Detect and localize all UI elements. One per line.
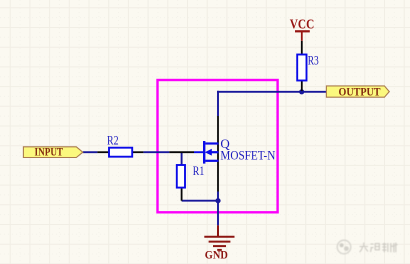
svg-text:R2: R2 — [107, 133, 119, 148]
svg-text:INPUT: INPUT — [35, 145, 64, 159]
svg-text:OUTPUT: OUTPUT — [339, 85, 381, 99]
svg-text:VCC: VCC — [290, 16, 315, 31]
svg-text:MOSFET-N: MOSFET-N — [220, 148, 276, 163]
svg-text:GND: GND — [205, 248, 228, 262]
svg-text:R3: R3 — [308, 53, 319, 68]
svg-text:R1: R1 — [193, 163, 205, 178]
